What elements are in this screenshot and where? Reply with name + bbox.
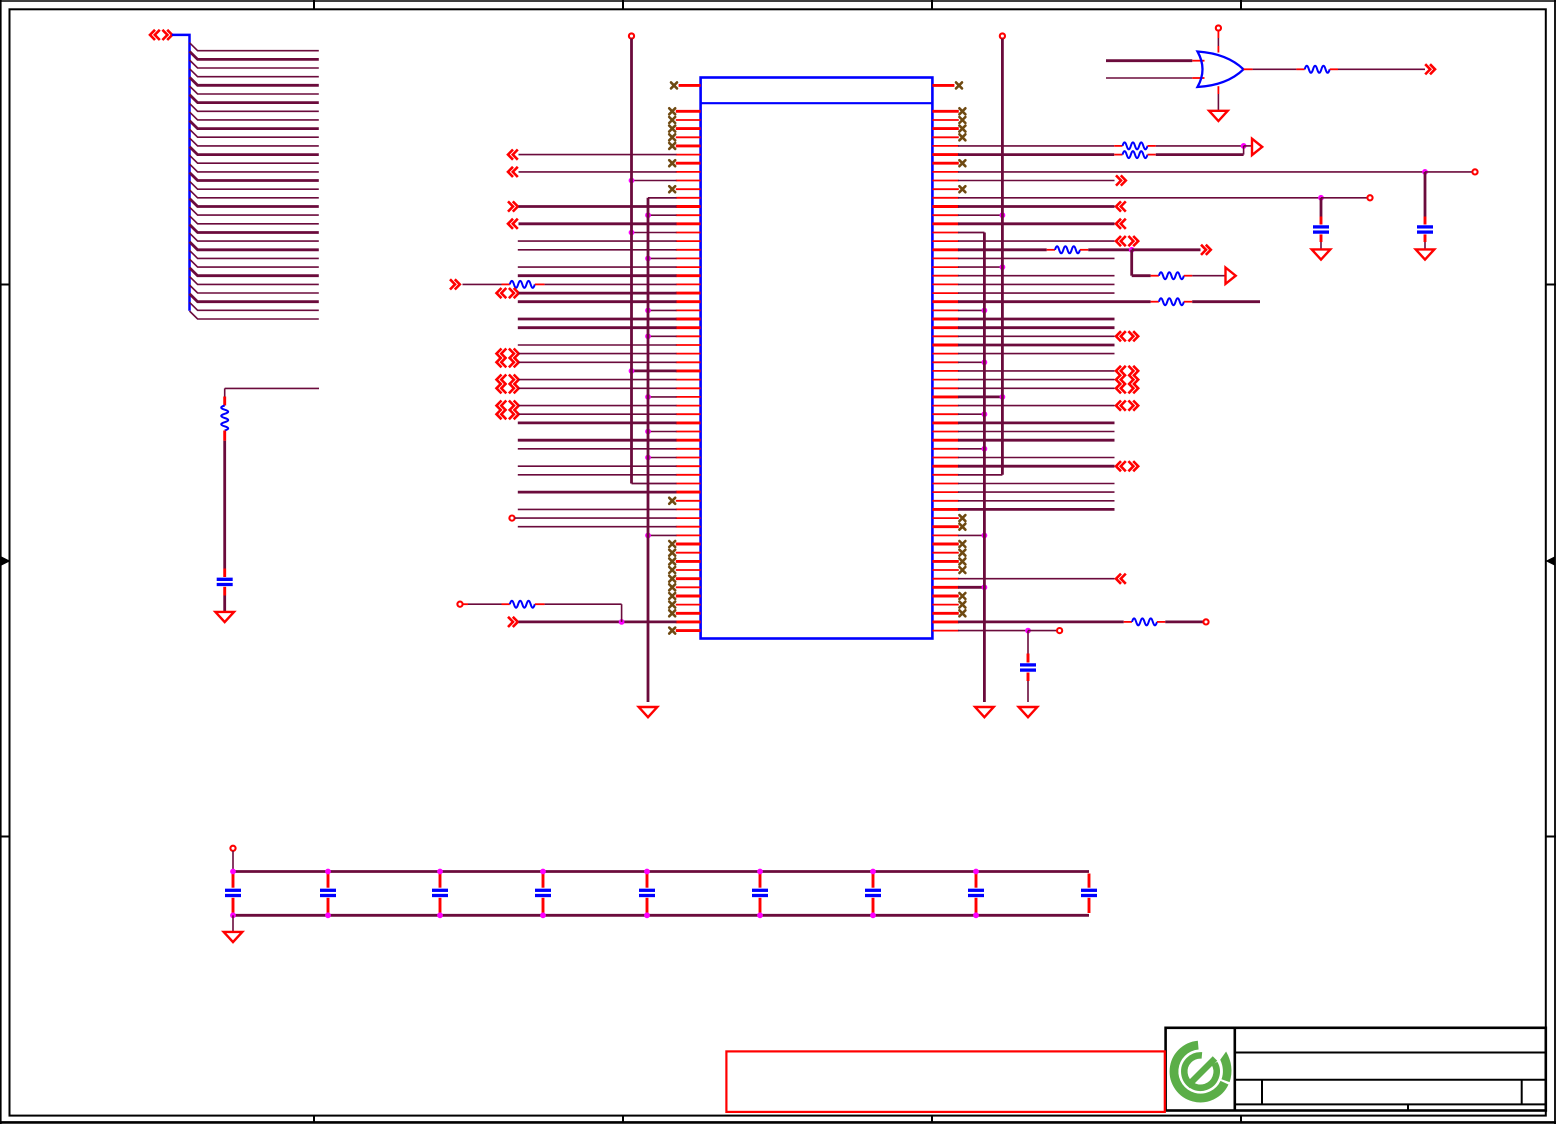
wire bbox=[519, 222, 677, 225]
wire bbox=[1132, 250, 1151, 276]
pin L52 bbox=[676, 543, 701, 546]
junction bbox=[1422, 169, 1428, 175]
pin R60 bbox=[932, 612, 958, 615]
wire bbox=[1106, 77, 1192, 79]
junction bbox=[982, 584, 988, 590]
pin R54 bbox=[932, 560, 958, 563]
ground bbox=[215, 612, 234, 622]
no-connect bbox=[669, 567, 675, 573]
wire bbox=[958, 205, 1115, 208]
wire bbox=[958, 578, 1115, 580]
pin L42 bbox=[676, 457, 701, 459]
no-connect bbox=[669, 541, 675, 547]
pin R47 bbox=[932, 500, 958, 502]
no-connect bbox=[959, 541, 965, 547]
no-connect bbox=[959, 117, 965, 123]
pin L21 bbox=[676, 274, 701, 277]
pin right band bbox=[932, 84, 954, 87]
no-connect bbox=[959, 134, 965, 140]
ground bbox=[975, 707, 994, 717]
no-connect bbox=[959, 602, 965, 608]
no-connect bbox=[959, 550, 965, 556]
pin L11 bbox=[676, 188, 701, 190]
no-connect bbox=[669, 126, 675, 132]
pin L46 bbox=[676, 491, 701, 494]
pin L6 bbox=[676, 144, 701, 147]
pin R18 bbox=[932, 248, 958, 251]
wire bbox=[519, 361, 677, 363]
wire bbox=[518, 240, 677, 242]
pin L27 bbox=[676, 326, 701, 329]
no-connect bbox=[959, 593, 965, 599]
net marker bbox=[1252, 139, 1262, 155]
wire bbox=[958, 465, 1115, 468]
pin R53 bbox=[932, 552, 958, 554]
pin bbox=[1244, 68, 1253, 70]
wire bbox=[223, 596, 226, 612]
wire bus bit 28 bbox=[190, 285, 319, 293]
wire bbox=[1320, 198, 1323, 217]
capacitor C5 bbox=[225, 874, 241, 914]
pin R43 bbox=[932, 465, 958, 468]
wire bbox=[519, 413, 677, 415]
wire vertical A bbox=[632, 39, 677, 484]
wire bbox=[958, 214, 1002, 216]
pin L62 bbox=[676, 629, 701, 632]
pin R10 bbox=[932, 180, 958, 182]
wire bbox=[1424, 242, 1426, 249]
wire bus bit 10 bbox=[190, 129, 319, 137]
wire bbox=[632, 180, 677, 182]
resistor R1 bbox=[221, 397, 228, 441]
wire bus bit 14 bbox=[190, 164, 319, 172]
pin R20 bbox=[932, 266, 958, 268]
pin R40 bbox=[932, 439, 958, 442]
wire bbox=[232, 915, 234, 931]
wire bbox=[518, 344, 677, 346]
net marker bbox=[1226, 268, 1236, 284]
wire bbox=[519, 205, 677, 208]
pin R6 bbox=[932, 145, 958, 147]
pin L47 bbox=[676, 500, 701, 502]
wire bbox=[648, 197, 677, 199]
pin L45 bbox=[676, 483, 701, 485]
off-page connector pair bbox=[497, 375, 519, 385]
wire bbox=[519, 292, 677, 295]
pin R51 bbox=[932, 534, 958, 536]
off-page connector pair bbox=[1116, 236, 1138, 246]
junction bbox=[757, 869, 763, 875]
off-page connector pair bbox=[1116, 461, 1138, 471]
wire bbox=[958, 431, 1115, 433]
wire bus bit 13 bbox=[190, 155, 319, 163]
no-connect bbox=[669, 108, 675, 114]
ground bbox=[1209, 111, 1228, 121]
pin L13 bbox=[676, 205, 701, 208]
off-page connector pair bbox=[497, 349, 519, 359]
off-page connector bbox=[1201, 245, 1211, 255]
off-page connector bus left bbox=[150, 30, 172, 40]
capacitor C1 bbox=[217, 569, 233, 596]
wire bbox=[518, 465, 677, 467]
wire bbox=[958, 171, 1425, 173]
wire bbox=[958, 457, 1115, 459]
pin L18 bbox=[676, 249, 701, 251]
off-page connector bbox=[1116, 574, 1126, 584]
wire bus bit 15 bbox=[190, 173, 319, 181]
pin R16 bbox=[932, 232, 958, 234]
junction bbox=[645, 333, 651, 339]
no-connect bbox=[959, 108, 965, 114]
junction bbox=[973, 912, 979, 918]
wire bbox=[632, 369, 677, 372]
bus B1 bbox=[172, 35, 190, 311]
wire bbox=[519, 353, 677, 355]
pin L10 bbox=[676, 180, 701, 182]
resistor R2 bbox=[502, 281, 545, 288]
junction bbox=[1241, 143, 1247, 149]
wire bbox=[958, 405, 1115, 407]
pin bbox=[1192, 77, 1204, 79]
pin R4 bbox=[932, 127, 958, 130]
wire bbox=[958, 292, 1115, 294]
pin L37 bbox=[676, 413, 701, 415]
junction bbox=[619, 619, 625, 625]
junction bbox=[644, 869, 650, 875]
pin R36 bbox=[932, 405, 958, 407]
pin R7 bbox=[932, 153, 958, 156]
junction bbox=[982, 446, 988, 452]
wire bbox=[545, 604, 622, 622]
wire bbox=[958, 421, 1115, 424]
pin L49 bbox=[676, 517, 701, 519]
junction bbox=[1129, 247, 1135, 253]
junction bbox=[230, 912, 236, 918]
junction bbox=[870, 912, 876, 918]
resistor R3 bbox=[502, 601, 545, 608]
pin L28 bbox=[676, 335, 701, 337]
pin R31 bbox=[932, 361, 958, 363]
pin bbox=[1192, 60, 1204, 62]
no-connect bbox=[959, 567, 965, 573]
pin L43 bbox=[676, 465, 701, 467]
off-page connector bbox=[1116, 201, 1126, 211]
wire bbox=[958, 232, 984, 234]
no-connect bbox=[669, 628, 675, 634]
no-connect ring bbox=[1367, 195, 1372, 200]
wire vertical B bbox=[648, 198, 677, 702]
wire bus bit 31 bbox=[190, 311, 319, 319]
wire bbox=[518, 249, 677, 251]
wire bus bit 19 bbox=[190, 207, 319, 215]
no-connect bbox=[669, 160, 675, 166]
wire bbox=[958, 395, 1002, 398]
pin R46 bbox=[932, 491, 958, 493]
pin R23 bbox=[932, 292, 958, 294]
wire bbox=[1165, 621, 1203, 624]
capacitor C3 bbox=[1313, 217, 1329, 243]
wire bbox=[958, 222, 1115, 225]
wire bbox=[519, 154, 677, 156]
wire bbox=[958, 180, 1115, 182]
off-page connector pair bbox=[497, 401, 519, 411]
off-page connector pair bbox=[1116, 331, 1138, 341]
wire bus bit 24 bbox=[190, 250, 319, 258]
wire bus bit 30 bbox=[190, 302, 319, 310]
wire bbox=[648, 396, 677, 398]
wire bbox=[958, 534, 984, 536]
junction bbox=[629, 230, 635, 236]
pin L17 bbox=[676, 240, 701, 242]
junction bbox=[870, 869, 876, 875]
no-connect bbox=[959, 160, 965, 166]
pin L41 bbox=[676, 448, 701, 450]
off-page connector bbox=[508, 150, 518, 160]
wire bbox=[632, 232, 677, 234]
wire bbox=[518, 300, 677, 303]
wire bbox=[958, 387, 1115, 389]
pin L33 bbox=[676, 379, 701, 381]
wire bbox=[958, 145, 1114, 147]
wire bus bit 21 bbox=[190, 225, 319, 233]
no-connect bbox=[959, 610, 965, 616]
pin L8 bbox=[676, 162, 701, 165]
junction bbox=[437, 912, 443, 918]
wire bbox=[958, 439, 1115, 442]
or-gate U2 bbox=[1198, 52, 1244, 88]
pin L44 bbox=[676, 474, 701, 476]
wire bus bit 9 bbox=[190, 121, 319, 129]
junction bbox=[982, 359, 988, 365]
pin R2 bbox=[932, 110, 958, 113]
power ring net VC bbox=[1000, 33, 1005, 38]
pin L32 bbox=[676, 369, 701, 372]
capacitor C2 bbox=[1417, 217, 1433, 243]
off-page connector bbox=[1116, 219, 1126, 229]
wire bbox=[518, 491, 677, 494]
wire bus bit 20 bbox=[190, 216, 319, 224]
wire bbox=[1088, 248, 1131, 251]
wire bbox=[958, 500, 1115, 502]
off-page connector pair bbox=[497, 288, 519, 298]
junction bbox=[629, 178, 635, 184]
junction bbox=[540, 912, 546, 918]
junction bbox=[645, 394, 651, 400]
wire bbox=[223, 441, 226, 569]
pin R17 bbox=[932, 240, 958, 242]
power ring bbox=[1216, 25, 1221, 30]
pin L24 bbox=[676, 300, 701, 303]
pin L39 bbox=[676, 431, 701, 433]
resistor R5 bbox=[1114, 151, 1156, 158]
wire bbox=[958, 621, 1124, 624]
pin R62 bbox=[932, 630, 958, 632]
wire bbox=[958, 275, 1115, 277]
power ring net VCC bbox=[230, 846, 235, 851]
pin R25 bbox=[932, 309, 958, 311]
capacitor C12 bbox=[968, 874, 984, 914]
pin R48 bbox=[932, 508, 958, 511]
ground bbox=[1019, 707, 1038, 717]
wire bus bit 25 bbox=[190, 259, 319, 267]
pin bbox=[1217, 86, 1219, 94]
pin R56 bbox=[932, 578, 958, 580]
pin R58 bbox=[932, 595, 958, 598]
wire bbox=[958, 474, 1002, 476]
pin L16 bbox=[676, 232, 701, 234]
wire bbox=[1192, 275, 1225, 277]
junction bbox=[645, 308, 651, 314]
junction bbox=[645, 429, 651, 435]
wire bus bit 8 bbox=[190, 112, 319, 120]
wire bbox=[1192, 300, 1260, 303]
no-connect bbox=[959, 126, 965, 132]
wire bus bit 17 bbox=[190, 190, 319, 198]
wire bbox=[518, 326, 677, 329]
wire bbox=[958, 508, 1115, 511]
pin R37 bbox=[932, 413, 958, 415]
pin L60 bbox=[676, 612, 701, 615]
wire bbox=[958, 491, 1115, 493]
wire ground rail bbox=[233, 914, 1089, 917]
wire power rail bbox=[233, 870, 1089, 873]
wire bbox=[519, 405, 677, 407]
junction bbox=[629, 368, 635, 374]
junction bbox=[325, 869, 331, 875]
resistor R10 bbox=[1296, 66, 1338, 73]
wire bbox=[958, 448, 984, 450]
pin bbox=[1217, 31, 1219, 53]
wire bbox=[958, 240, 1115, 242]
junction bbox=[982, 533, 988, 539]
pin R27 bbox=[932, 326, 958, 329]
pin L2 bbox=[676, 110, 701, 113]
capacitor C9 bbox=[639, 874, 655, 914]
wire bus bit 3 bbox=[190, 69, 319, 77]
off-page connector pair bbox=[1116, 401, 1138, 411]
wire bbox=[958, 353, 1115, 355]
pin R32 bbox=[932, 370, 958, 372]
off-page connector pair bbox=[1116, 375, 1138, 385]
wire bbox=[958, 483, 1115, 485]
pin R21 bbox=[932, 275, 958, 277]
pin R45 bbox=[932, 483, 958, 485]
wire bbox=[958, 326, 1115, 329]
pin R15 bbox=[932, 222, 958, 225]
wire bus bit 26 bbox=[190, 268, 319, 276]
wire bbox=[1027, 631, 1029, 654]
pin R29 bbox=[932, 344, 958, 347]
wire bbox=[958, 370, 1115, 372]
revision box bbox=[726, 1051, 1164, 1112]
wire bbox=[519, 171, 677, 173]
wire bbox=[1338, 68, 1425, 70]
wire bbox=[1424, 172, 1427, 217]
wire bbox=[1217, 94, 1219, 111]
wire bbox=[648, 309, 677, 311]
wire bbox=[648, 214, 677, 216]
wire bbox=[518, 421, 677, 424]
ground bbox=[1312, 249, 1331, 259]
pin R61 bbox=[932, 620, 958, 623]
off-page connector bbox=[508, 201, 518, 211]
pin R34 bbox=[932, 387, 958, 389]
pin L4 bbox=[676, 127, 701, 130]
pin L31 bbox=[676, 361, 701, 363]
wire bbox=[519, 379, 677, 381]
junction bbox=[437, 869, 443, 875]
wire bbox=[518, 474, 677, 476]
no-connect ring bbox=[1472, 169, 1477, 174]
off-page connector pair bbox=[1116, 383, 1138, 393]
pin L40 bbox=[676, 439, 701, 442]
no-connect bbox=[959, 558, 965, 564]
pin R9 bbox=[932, 171, 958, 173]
junction bbox=[973, 869, 979, 875]
pin L55 bbox=[676, 569, 701, 571]
wire bbox=[958, 248, 1047, 251]
pin L57 bbox=[676, 586, 701, 588]
pin L3 bbox=[676, 119, 701, 121]
wire bus bit 7 bbox=[190, 103, 319, 111]
wire bus bit 0 bbox=[190, 43, 319, 51]
pin L54 bbox=[676, 560, 701, 563]
wire bbox=[958, 335, 1115, 337]
resistor R9 bbox=[1124, 618, 1166, 625]
pin L38 bbox=[676, 421, 701, 424]
wire bbox=[958, 309, 984, 311]
wire bbox=[232, 851, 234, 872]
pin L29 bbox=[676, 344, 701, 346]
pin L36 bbox=[676, 405, 701, 407]
pin R44 bbox=[932, 474, 958, 476]
wire bbox=[1106, 59, 1192, 62]
wire bbox=[1425, 171, 1472, 173]
wire bus bit 4 bbox=[190, 77, 319, 85]
pin L53 bbox=[676, 552, 701, 554]
no-connect bbox=[959, 524, 965, 530]
wire bus bit 6 bbox=[190, 95, 319, 103]
wire bbox=[958, 361, 984, 363]
junction bbox=[645, 212, 651, 218]
capacitor C11 bbox=[865, 874, 881, 914]
wire bus bit 22 bbox=[190, 233, 319, 241]
wire bbox=[1244, 145, 1252, 147]
IC U1 bbox=[701, 78, 933, 639]
capacitor C13 bbox=[1081, 874, 1097, 914]
pin R55 bbox=[932, 569, 958, 571]
junction bbox=[325, 912, 331, 918]
wire bbox=[958, 300, 1151, 303]
junction bbox=[645, 533, 651, 539]
wire bbox=[958, 283, 1115, 285]
pin R41 bbox=[932, 448, 958, 450]
wire bbox=[648, 457, 677, 459]
pin R14 bbox=[932, 214, 958, 216]
pin R38 bbox=[932, 421, 958, 424]
wire bbox=[1027, 681, 1029, 702]
wire bbox=[958, 197, 1321, 199]
capacitor C7 bbox=[432, 874, 448, 914]
off-page connector pair bbox=[1116, 366, 1138, 376]
no-connect bbox=[669, 117, 675, 123]
pin R28 bbox=[932, 335, 958, 337]
pin R59 bbox=[932, 604, 958, 606]
wire bbox=[518, 508, 677, 510]
wire vertical D bbox=[958, 233, 984, 703]
pin L23 bbox=[676, 292, 701, 295]
wire bbox=[1320, 242, 1322, 249]
